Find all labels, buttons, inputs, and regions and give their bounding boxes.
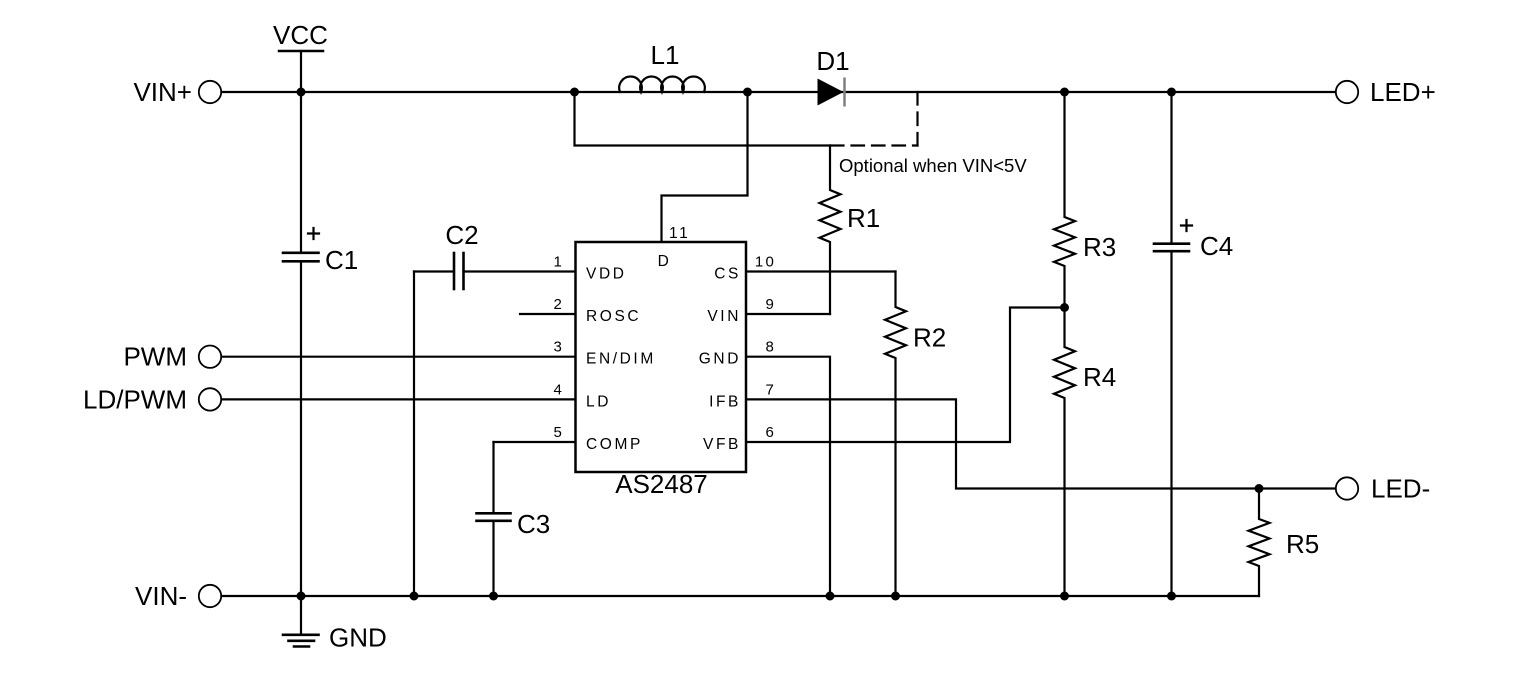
svg-text:VFB: VFB (703, 436, 741, 453)
svg-text:VDD: VDD (586, 266, 627, 283)
svg-text:LED-: LED- (1371, 474, 1430, 504)
svg-text:7: 7 (765, 381, 776, 398)
svg-text:IFB: IFB (709, 393, 741, 410)
svg-text:GND: GND (329, 623, 387, 653)
svg-text:AS2487: AS2487 (615, 469, 708, 499)
svg-text:4: 4 (553, 381, 564, 398)
svg-text:VIN: VIN (707, 308, 741, 325)
svg-text:11: 11 (669, 225, 690, 242)
svg-text:R3: R3 (1083, 232, 1116, 262)
svg-text:C3: C3 (517, 509, 550, 539)
svg-text:C2: C2 (445, 220, 478, 250)
svg-text:8: 8 (765, 339, 776, 356)
svg-text:D1: D1 (816, 46, 849, 76)
svg-text:R4: R4 (1083, 362, 1116, 392)
svg-text:C4: C4 (1200, 231, 1233, 261)
svg-text:R1: R1 (847, 203, 880, 233)
svg-text:VIN+: VIN+ (133, 77, 192, 107)
svg-text:1: 1 (553, 254, 564, 271)
svg-text:5: 5 (553, 424, 564, 441)
svg-text:10: 10 (755, 254, 776, 271)
svg-text:COMP: COMP (586, 436, 643, 453)
svg-text:GND: GND (699, 351, 741, 368)
svg-text:R5: R5 (1286, 529, 1319, 559)
svg-text:LD/PWM: LD/PWM (83, 384, 187, 414)
svg-text:D: D (658, 253, 672, 270)
svg-text:CS: CS (714, 266, 741, 283)
svg-text:L1: L1 (651, 40, 680, 70)
svg-text:3: 3 (553, 339, 564, 356)
svg-text:R2: R2 (913, 323, 946, 353)
svg-text:PWM: PWM (123, 342, 187, 372)
svg-text:VCC: VCC (273, 20, 328, 50)
svg-text:VIN-: VIN- (135, 581, 187, 611)
svg-text:LD: LD (586, 393, 611, 410)
svg-text:C1: C1 (325, 245, 358, 275)
svg-text:6: 6 (765, 424, 776, 441)
svg-text:LED+: LED+ (1370, 77, 1436, 107)
svg-text:2: 2 (553, 296, 564, 313)
svg-text:Optional when VIN<5V: Optional when VIN<5V (839, 155, 1027, 176)
svg-text:ROSC: ROSC (586, 308, 641, 325)
svg-text:9: 9 (765, 296, 776, 313)
svg-text:EN/DIM: EN/DIM (586, 351, 656, 368)
